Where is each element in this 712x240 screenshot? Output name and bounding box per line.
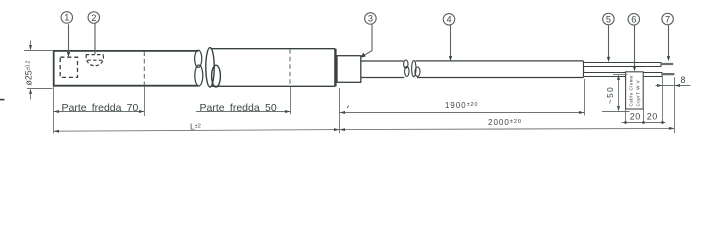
balloon 3: [364, 13, 377, 56]
dimension 8 (stripped end): [656, 77, 691, 133]
item 1 (internal element, dashed square): [60, 57, 77, 77]
svg-text:6: 6: [631, 15, 636, 25]
stray mark: [347, 106, 348, 109]
balloon 7: [662, 13, 674, 59]
cable marker label box: [626, 72, 644, 109]
svg-text:Parte fredda 50: Parte fredda 50: [200, 102, 277, 114]
heating cable (thin section): [361, 61, 584, 78]
svg-text:5: 5: [606, 14, 611, 24]
svg-text:Cable Cleme: Cable Cleme: [628, 75, 633, 107]
dimension Parte fredda 50: [196, 87, 291, 115]
centerline dashed (parte fredda 50 boundary): [289, 49, 291, 86]
svg-text:Parte fredda 70: Parte fredda 70: [62, 102, 139, 114]
break symbol tube 1 right end: [195, 50, 203, 86]
upper lead wire: [584, 63, 674, 67]
dimension ø25±0.2: [24, 41, 53, 100]
collar / transition fitting: [337, 56, 361, 83]
svg-text:ø25±0.2: ø25±0.2: [24, 60, 34, 85]
break symbol cable: [404, 60, 420, 77]
edge artifact: [0, 99, 5, 101]
svg-text:CoprT W V: CoprT W V: [635, 80, 640, 107]
svg-text:1900±20: 1900±20: [445, 101, 478, 110]
balloon 2: [88, 12, 100, 54]
svg-text:7: 7: [665, 14, 670, 24]
centerline dashed (parte fredda 70 boundary): [143, 52, 145, 86]
tube 2 (right sheath section): [206, 48, 336, 87]
dimension Parte fredda 70: [54, 87, 145, 134]
svg-text:3: 3: [368, 14, 373, 24]
svg-text:8: 8: [681, 75, 686, 85]
svg-text:~50: ~50: [606, 86, 615, 104]
dimension ~50: [602, 75, 630, 112]
svg-text:4: 4: [446, 15, 451, 25]
tube body (left sheath, ø25): [54, 51, 199, 86]
dimension 1900±20: [340, 79, 585, 133]
svg-text:2: 2: [91, 13, 96, 23]
balloon 4: [443, 14, 455, 59]
lower lead wire: [584, 73, 675, 77]
svg-text:20: 20: [647, 112, 658, 122]
item 2 (internal element, dashed cup): [86, 55, 104, 66]
balloon 6: [628, 14, 640, 69]
label box text: [628, 75, 640, 107]
svg-text:2000±20: 2000±20: [488, 118, 522, 127]
balloon 5: [603, 13, 615, 60]
svg-text:20: 20: [630, 112, 641, 122]
dimension 2000±20: [340, 128, 675, 129]
dimension L±2: [54, 130, 340, 132]
svg-text:1: 1: [64, 13, 69, 23]
dimension 20 / 20: [622, 77, 666, 124]
balloon 1: [61, 12, 73, 55]
